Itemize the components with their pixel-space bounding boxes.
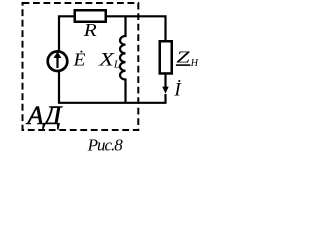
svg-text:АД: АД	[25, 100, 63, 130]
svg-text:Ė: Ė	[73, 50, 86, 70]
svg-text:H: H	[190, 58, 199, 69]
svg-text:L: L	[113, 59, 120, 71]
svg-text:R: R	[83, 20, 97, 40]
svg-text:Рис.8: Рис.8	[87, 136, 124, 155]
svg-text:Z: Z	[176, 48, 190, 67]
